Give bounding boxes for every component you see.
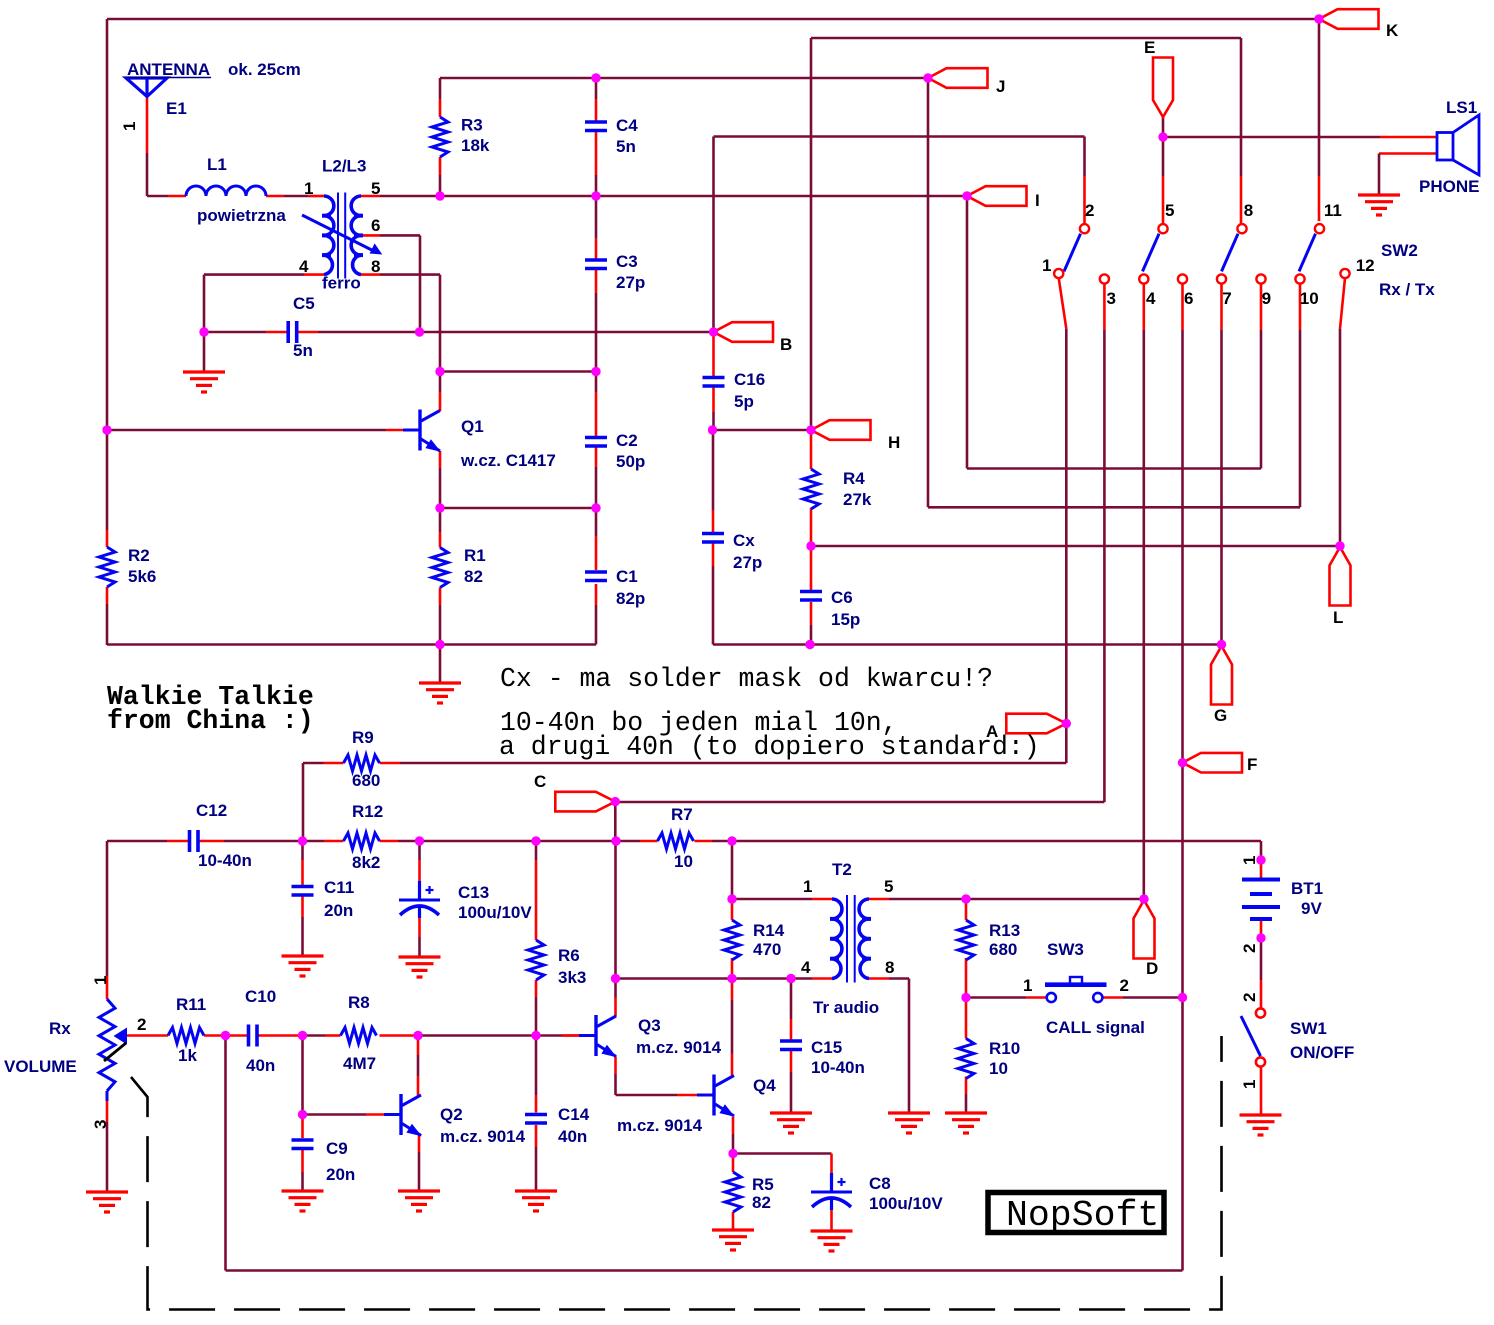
ground below SW1 — [1240, 1113, 1282, 1116]
wire R1 column x=440 — [439, 508, 442, 532]
dashed link pot to SW1 — [131, 1036, 1222, 1310]
wire SW3 line y=997.5 — [966, 996, 1027, 999]
wire C6 column — [810, 549, 813, 590]
junction Q2 collector / R8 — [413, 1031, 422, 1040]
svg-text:10-40n: 10-40n — [198, 851, 252, 870]
wire Q2 collector stub x=418 — [417, 1038, 420, 1055]
svg-text:T2: T2 — [832, 860, 852, 879]
wire Cx column — [712, 430, 715, 510]
svg-text:ferro: ferro — [322, 274, 361, 293]
svg-text:8: 8 — [885, 958, 894, 977]
wire left border x=107 below R2 to bottom — [106, 604, 109, 645]
junction C4 bottom — [591, 191, 600, 200]
svg-text:C1: C1 — [616, 567, 638, 586]
battery BT1 9V — [1242, 878, 1280, 882]
svg-text:2: 2 — [1240, 944, 1259, 953]
junction R1 bottom / ground — [435, 640, 444, 649]
junction Q4 emitter / R5 / C8 — [728, 1149, 737, 1158]
svg-text:82: 82 — [464, 567, 483, 586]
ground below R10 — [945, 1111, 987, 1114]
wire C5 ground stub — [203, 332, 206, 371]
wire Q2 base line y=1114.5 — [303, 1113, 367, 1116]
SW2 upper contact 5 — [1158, 224, 1167, 233]
svg-text:Rx: Rx — [49, 1019, 71, 1038]
svg-text:R13: R13 — [989, 921, 1020, 940]
svg-text:from China :): from China :) — [107, 706, 314, 736]
svg-text:Q4: Q4 — [753, 1076, 776, 1095]
svg-text:F: F — [1247, 755, 1257, 774]
junction C connector — [611, 797, 620, 806]
wire battery pin2 to SW1 — [1260, 921, 1263, 939]
SW2 throw contact 10 — [1295, 274, 1304, 283]
svg-text:R9: R9 — [352, 728, 374, 747]
wire T2 pin8 corner to ground — [869, 977, 889, 980]
junction C4 top — [591, 73, 600, 82]
wire H line y=430 — [714, 429, 812, 432]
svg-text:5: 5 — [371, 179, 380, 198]
junction C13 top — [415, 836, 424, 845]
svg-text:ok. 25cm: ok. 25cm — [228, 60, 301, 79]
ground below R5 — [712, 1228, 754, 1231]
wire J column x=928 — [927, 78, 930, 507]
speaker LS1 PHONE — [1437, 133, 1453, 161]
svg-text:w.cz. C1417: w.cz. C1417 — [460, 451, 556, 470]
resistor R8 — [341, 1028, 377, 1044]
junction J — [923, 73, 932, 82]
junction R6 top — [531, 836, 540, 845]
potentiometer Rx VOLUME — [99, 999, 115, 1091]
svg-text:C9: C9 — [326, 1139, 348, 1158]
svg-text:SW2: SW2 — [1381, 241, 1418, 260]
resistor R5 — [725, 1172, 741, 1212]
svg-text:27p: 27p — [733, 553, 762, 572]
capacitor C16 — [703, 376, 725, 380]
connector F — [1183, 753, 1243, 773]
svg-text:m.cz. 9014: m.cz. 9014 — [617, 1116, 703, 1135]
svg-text:5n: 5n — [616, 137, 636, 156]
connector G — [1211, 646, 1232, 705]
svg-text:H: H — [888, 433, 900, 452]
wire SW2 pin6 column to F — [1181, 284, 1184, 330]
svg-text:LS1: LS1 — [1446, 98, 1477, 117]
capacitor C2 — [585, 436, 607, 440]
capacitor C3 — [585, 258, 607, 262]
connector J — [928, 68, 988, 88]
svg-text:C2: C2 — [616, 431, 638, 450]
svg-text:R8: R8 — [348, 993, 370, 1012]
svg-text:powietrzna: powietrzna — [197, 206, 286, 225]
svg-text:8: 8 — [1244, 201, 1253, 220]
junction C1 top — [591, 503, 600, 512]
svg-text:C11: C11 — [324, 878, 354, 897]
wire SW2 pole12 to L column — [1340, 278, 1345, 329]
wire SW2 pin10 red stub — [1299, 284, 1302, 330]
svg-text:5: 5 — [1165, 201, 1174, 220]
junction SW3 / F column — [1178, 993, 1187, 1002]
wire R10 column — [965, 1000, 968, 1039]
svg-text:1: 1 — [1240, 856, 1259, 865]
svg-text:E: E — [1144, 38, 1155, 57]
junction C2 top — [591, 367, 600, 376]
transistor Q2 m.cz. 9014 — [399, 1094, 402, 1135]
svg-text:470: 470 — [753, 940, 781, 959]
wire L2/L3 pin4 to ground corner — [304, 273, 324, 276]
SW2 upper contact 11 — [1315, 224, 1324, 233]
wire left border x=107 (top to R2) — [106, 19, 109, 530]
connector A — [1006, 714, 1066, 734]
svg-text:9: 9 — [1262, 289, 1271, 308]
SW2 throw contact 9 — [1256, 274, 1265, 283]
svg-text:Cx: Cx — [733, 531, 755, 550]
svg-text:Q2: Q2 — [440, 1105, 463, 1124]
svg-text:PHONE: PHONE — [1419, 177, 1479, 196]
wire R14 column — [731, 903, 734, 920]
svg-text:10: 10 — [989, 1059, 1008, 1078]
wire battery drop x=1261 — [1260, 841, 1263, 860]
wire bottom y=644.5 right segment to G — [713, 643, 1222, 646]
svg-text:G: G — [1214, 706, 1227, 725]
svg-text:27k: 27k — [843, 490, 872, 509]
switch SW3 CALL signal — [1047, 993, 1056, 1002]
capacitor C15 — [780, 1039, 802, 1043]
resistor R13 — [958, 920, 974, 960]
wire L2/L3 pin1 stub — [309, 195, 324, 198]
svg-text:C13: C13 — [458, 883, 489, 902]
svg-text:1: 1 — [1042, 256, 1051, 275]
ground below C15 — [770, 1111, 812, 1114]
wire bottom of upper circuit y=644.5 left segment — [107, 643, 596, 646]
svg-text:100u/10V: 100u/10V — [458, 903, 532, 922]
wire H/R4 column x=811 from y38 to H — [810, 38, 813, 430]
connector I — [967, 186, 1027, 206]
capacitor C5 — [286, 321, 290, 343]
wire SW2 pin9 red stub — [1260, 284, 1263, 330]
svg-text:Tr audio: Tr audio — [813, 998, 879, 1017]
wire R5/C8 line y=1153.5 — [733, 1152, 832, 1155]
svg-text:27p: 27p — [616, 273, 645, 292]
wire I column x=967 — [966, 196, 969, 469]
wire top border K-net y=19 — [107, 18, 1319, 21]
wire I line y=468.5 to SW2 pin9 column — [967, 467, 1261, 470]
junction K — [1314, 14, 1323, 23]
svg-text:15p: 15p — [831, 610, 860, 629]
svg-text:E1: E1 — [166, 99, 187, 118]
wire y=137 E-net to speaker LS1 — [1163, 136, 1380, 139]
junction D — [1139, 894, 1148, 903]
junction C15 top — [786, 974, 795, 983]
svg-text:C: C — [534, 772, 546, 791]
svg-text:680: 680 — [989, 940, 1017, 959]
wire C2 column x=596 — [595, 372, 598, 393]
svg-text:680: 680 — [352, 771, 380, 790]
ground below C8 — [811, 1229, 853, 1232]
wire ground stub below R1 node — [439, 645, 442, 683]
svg-text:m.cz. 9014: m.cz. 9014 — [636, 1038, 722, 1057]
junction F — [1178, 758, 1187, 767]
svg-text:1: 1 — [803, 877, 812, 896]
wire Q3 emitter to Q4 base — [614, 1057, 617, 1075]
adjustment arrow of L2/L3 — [302, 215, 375, 252]
svg-text:R6: R6 — [558, 946, 580, 965]
wire C8 column — [830, 1154, 833, 1174]
connector D — [1134, 900, 1155, 959]
SW2 lever 5 — [1143, 234, 1160, 272]
svg-text:C5: C5 — [293, 294, 315, 313]
svg-text:5: 5 — [884, 877, 893, 896]
svg-text:2: 2 — [1120, 976, 1129, 995]
svg-text:5k6: 5k6 — [128, 567, 156, 586]
resistor R3 — [432, 117, 448, 157]
wire Q4 emitter to R5 node — [732, 1117, 735, 1134]
svg-text:C10: C10 — [245, 987, 276, 1006]
transistor Q3 m.cz. 9014 — [594, 1015, 597, 1056]
connector K — [1319, 9, 1379, 29]
svg-text:C16: C16 — [734, 370, 765, 389]
svg-text:3: 3 — [91, 1120, 110, 1129]
svg-text:R2: R2 — [128, 546, 150, 565]
wire main audio rail y=841 from pot top corner — [107, 840, 167, 843]
svg-text:3k3: 3k3 — [558, 968, 586, 987]
pot adjust strike — [104, 1043, 126, 1061]
wire y=136.5 B-net to SW2 pin2 — [714, 135, 1085, 138]
wire Q4 collector column x=732 — [731, 979, 734, 1001]
connector E — [1153, 58, 1173, 118]
capacitor C12 — [188, 830, 192, 852]
svg-text:3: 3 — [1107, 289, 1116, 308]
svg-text:8: 8 — [371, 257, 380, 276]
resistor R6 — [528, 940, 544, 980]
wire B column x=713.5 (top segment) — [712, 137, 715, 333]
wire C column x=615.5 down to Q3 collector — [614, 841, 617, 979]
svg-text:6: 6 — [371, 216, 380, 235]
svg-text:1k: 1k — [178, 1046, 197, 1065]
junction BT1 pin2 — [1256, 933, 1265, 942]
wire L2/L3 pin6 to C5 line — [361, 234, 380, 237]
wire Q2 emitter to ground — [418, 1133, 421, 1152]
wire R9 stubs and left corner — [380, 762, 401, 765]
capacitor C13 electrolytic — [418, 881, 421, 900]
junction R13 top — [961, 894, 970, 903]
transistor Q1 w.cz. C1417 — [418, 410, 421, 451]
junction Q2 base / C9 — [298, 1110, 307, 1119]
junction R7 right — [727, 836, 736, 845]
wire bottom return y=1270.5 — [226, 1269, 1183, 1272]
junction A — [1062, 719, 1071, 728]
resistor R7 — [658, 833, 694, 849]
wire speaker lower terminal to ground — [1379, 152, 1437, 155]
svg-text:J: J — [996, 77, 1005, 96]
svg-text:18k: 18k — [461, 136, 490, 155]
junction Q1 emitter — [435, 503, 444, 512]
svg-text:NopSoft: NopSoft — [1006, 1195, 1159, 1236]
svg-text:C4: C4 — [616, 116, 638, 135]
junction C6 bottom — [805, 640, 814, 649]
SW2 pole contact 1 — [1054, 269, 1063, 278]
svg-text:1: 1 — [120, 122, 139, 131]
wire battery pin1 stub — [1260, 862, 1263, 878]
svg-text:Q1: Q1 — [461, 417, 484, 436]
SW2 upper contact 8 — [1237, 224, 1246, 233]
SW2 lever 8 — [1222, 234, 1239, 272]
svg-text:11: 11 — [1324, 201, 1342, 220]
wire C5 line y=332 to connector B — [204, 331, 266, 334]
wire T2 pin4 line y=978.5 — [732, 977, 791, 980]
wire J line y=507.3 to SW2 pin10 column — [928, 506, 1300, 509]
wire C3 column x=596 — [595, 196, 598, 239]
svg-text:100u/10V: 100u/10V — [869, 1194, 943, 1213]
capacitor C6 — [800, 590, 822, 594]
wire T2 pin1 line y=899 — [732, 898, 812, 901]
SW2 throw contact 7 — [1217, 274, 1226, 283]
capacitor Cx — [702, 532, 724, 536]
svg-text:C8: C8 — [869, 1174, 891, 1193]
resistor R9 — [344, 755, 380, 771]
wire C10 node column x=225.5 down to bottom return — [224, 1036, 227, 1271]
junction C5 left — [199, 327, 208, 336]
resistor R12 — [344, 833, 380, 849]
wire SW1 to ground — [1260, 1067, 1263, 1115]
SW2 upper contact 2 — [1080, 224, 1089, 233]
wire R3 column x=440 — [439, 78, 442, 99]
svg-text:82: 82 — [752, 1193, 771, 1212]
wire Q1 emitter stub — [439, 451, 442, 468]
resistor R11 — [168, 1028, 204, 1044]
junction R3 bottom — [435, 191, 444, 200]
svg-text:1: 1 — [1240, 1080, 1259, 1089]
junction C11 top — [298, 836, 307, 845]
ground below LS1 — [1358, 193, 1400, 196]
ground below T2 pin8 — [888, 1111, 930, 1114]
junction Q3 collector — [611, 974, 620, 983]
svg-text:2: 2 — [1085, 201, 1094, 220]
connector B — [714, 322, 774, 342]
svg-text:5n: 5n — [293, 341, 313, 360]
switch SW1 ON/OFF — [1256, 1008, 1265, 1017]
transformer L2/L3 — [324, 196, 334, 275]
transformer T2 Tr audio — [832, 899, 842, 979]
wire Q3 collector line y=978.5 — [616, 977, 733, 980]
svg-text:VOLUME: VOLUME — [4, 1057, 77, 1076]
svg-text:R11: R11 — [176, 995, 206, 1014]
svg-text:C12: C12 — [196, 801, 227, 820]
connector H — [811, 420, 871, 440]
resistor R2 — [99, 547, 115, 587]
capacitor C10 — [247, 1025, 251, 1047]
junction I — [962, 191, 971, 200]
SW2 throw contact 4 — [1139, 274, 1148, 283]
wire Q1 collector node y=371.5 — [440, 370, 596, 373]
svg-text:7: 7 — [1222, 289, 1231, 308]
svg-text:20n: 20n — [324, 901, 353, 920]
svg-text:C14: C14 — [558, 1105, 590, 1124]
svg-text:4: 4 — [299, 257, 309, 276]
svg-text:10-40n: 10-40n — [811, 1058, 865, 1077]
wire R4 stubs — [810, 433, 813, 469]
wire C16 column — [712, 335, 715, 376]
svg-text:20n: 20n — [326, 1165, 355, 1184]
svg-text:2: 2 — [1240, 993, 1259, 1002]
SW2 throw contact 6 — [1178, 274, 1187, 283]
junction Q1 collector — [435, 367, 444, 376]
svg-text:SW1: SW1 — [1290, 1019, 1327, 1038]
ground below C11 — [282, 954, 324, 957]
SW2 lever 11 — [1299, 234, 1316, 272]
capacitor C11 — [292, 885, 314, 889]
svg-text:9V: 9V — [1301, 899, 1322, 918]
wire C9 column — [301, 1117, 304, 1138]
svg-text:B: B — [780, 335, 792, 354]
wire R2 column stubs — [106, 530, 109, 547]
svg-text:CALL signal: CALL signal — [1046, 1018, 1145, 1037]
svg-text:8k2: 8k2 — [352, 853, 380, 872]
wire L1 pin stubs y=196 — [168, 195, 186, 198]
wire R5 column — [732, 1156, 735, 1172]
wire SW2 pin4 column to D — [1143, 284, 1146, 330]
svg-text:1: 1 — [304, 179, 313, 198]
capacitor C8 electrolytic — [830, 1173, 833, 1192]
svg-text:4M7: 4M7 — [343, 1054, 376, 1073]
svg-text:R1: R1 — [464, 546, 486, 565]
svg-text:a drugi 40n (to dopiero standa: a drugi 40n (to dopiero standard:) — [499, 732, 1040, 762]
wire C15 column — [790, 979, 793, 1020]
SW2 pole contact 12 — [1340, 269, 1349, 278]
wire C line from C connector to SW2 pin3 column — [614, 802, 617, 841]
connector L — [1330, 547, 1351, 606]
wire C11 column — [301, 841, 304, 860]
junction left border / Q1 base — [102, 425, 111, 434]
ground below C13 — [399, 955, 441, 958]
wire R13 column — [965, 903, 968, 920]
wire L2/L3 pin5 to R3/C4/I y=196 — [361, 195, 380, 198]
wire A net: A dot down/corner to R9 line — [1065, 724, 1068, 764]
junction pin6 / C5 line — [415, 327, 424, 336]
svg-text:1: 1 — [91, 976, 110, 985]
svg-text:R7: R7 — [671, 805, 693, 824]
SW2 throw contact 3 — [1100, 274, 1109, 283]
capacitor C1 — [585, 570, 607, 574]
wire Q1 collector stub — [439, 372, 442, 393]
wire T2 pin5 line y=899 to R13 and D — [869, 898, 889, 901]
wire E column x=1163 — [1162, 117, 1165, 176]
svg-text:12: 12 — [1356, 256, 1375, 275]
wire y=78 R3/C4 top line to connector J — [440, 77, 928, 80]
svg-text:2: 2 — [137, 1015, 146, 1034]
connector C — [555, 792, 615, 812]
wire SW2 pin3 column to C line — [1103, 284, 1106, 330]
svg-text:I: I — [1035, 191, 1040, 210]
svg-text:D: D — [1146, 959, 1158, 978]
svg-text:Q3: Q3 — [638, 1016, 661, 1035]
wire C9 node column — [301, 1036, 304, 1115]
svg-text:BT1: BT1 — [1291, 879, 1323, 898]
svg-text:R4: R4 — [843, 469, 865, 488]
svg-text:C3: C3 — [616, 252, 638, 271]
ground below Rx — [86, 1190, 128, 1193]
svg-text:m.cz. 9014: m.cz. 9014 — [440, 1127, 526, 1146]
wire SW2 pole1 to A column — [1059, 278, 1067, 329]
svg-text:10: 10 — [1300, 289, 1319, 308]
wire K column x=1319 to SW2 pin11 — [1318, 19, 1321, 176]
svg-text:L: L — [1333, 608, 1343, 627]
wire R8 line y=1035.5 from pot wiper — [127, 1034, 168, 1037]
wire R6 column — [535, 841, 538, 860]
capacitor C14 — [525, 1113, 547, 1117]
svg-text:L2/L3: L2/L3 — [322, 157, 366, 176]
ground below R1 — [419, 681, 461, 684]
svg-text:Rx / Tx: Rx / Tx — [1379, 280, 1435, 299]
svg-text:L1: L1 — [207, 155, 227, 174]
svg-text:5p: 5p — [734, 392, 754, 411]
